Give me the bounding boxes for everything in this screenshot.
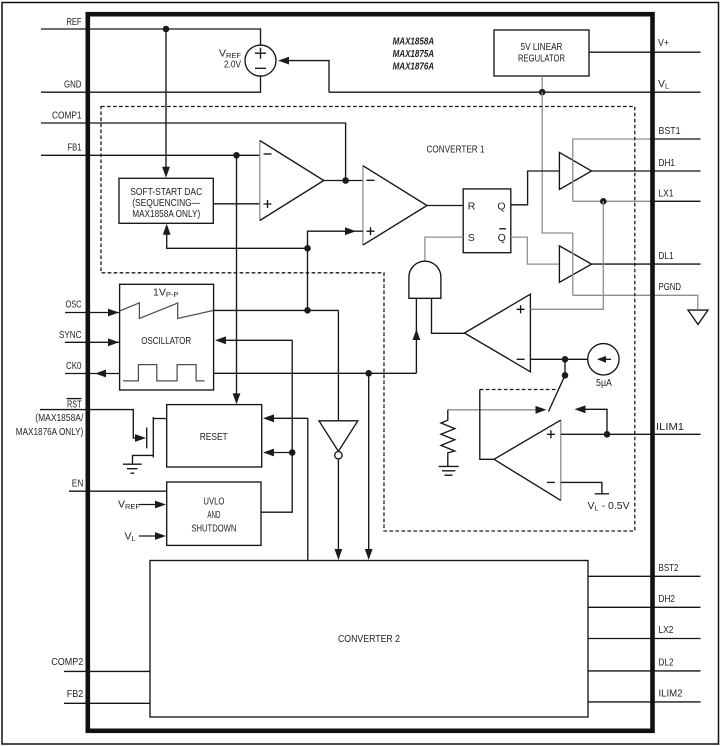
svg-text:CONVERTER 2: CONVERTER 2: [338, 633, 400, 645]
wire soft-start DAC output to error amp noninverting input: [213, 203, 259, 205]
svg-text:REGULATOR: REGULATOR: [518, 53, 565, 65]
svg-text:Q: Q: [497, 201, 505, 213]
op-amp U-CS current-sense comparator: [464, 294, 530, 372]
wire VL into UVLO: [139, 535, 158, 537]
wire oscillator ramp output: [214, 309, 339, 311]
wire EN pin line: [69, 490, 167, 492]
ground resistor ground symbol: [439, 466, 459, 475]
wire REF to soft-start DAC: [165, 29, 167, 169]
svg-text:PGND: PGND: [659, 281, 682, 293]
current source I1 5uA: [588, 344, 619, 375]
wire DL1 driver supply rail to PGND: [572, 233, 574, 295]
wire clock into AND gate left input: [415, 298, 417, 373]
svg-text:2.0V: 2.0V: [224, 58, 241, 70]
node LX1 junction: [600, 198, 607, 205]
svg-text:AND: AND: [207, 509, 220, 521]
flip-flop U-FF SR latch: [463, 189, 511, 253]
svg-text:5V LINEAR: 5V LINEAR: [521, 41, 563, 53]
node clock junction: [365, 370, 372, 377]
svg-text:SYNC: SYNC: [59, 329, 82, 341]
svg-text:CK0: CK0: [66, 360, 82, 372]
oscillator U-OSC box: [120, 284, 214, 390]
svg-text:MAX1875A: MAX1875A: [393, 48, 435, 60]
wire REF pin line with junction to VREF source: [41, 29, 261, 45]
wire Q-bar output to low-side driver: [511, 237, 560, 264]
wire DH1 pin line from driver output: [592, 170, 701, 172]
svg-text:5µA: 5µA: [596, 377, 612, 389]
wire Q output to high-side driver: [511, 171, 560, 205]
svg-text:S: S: [468, 232, 475, 244]
wire BST2 pin line: [588, 575, 701, 577]
wire inverter output to converter 2: [337, 459, 339, 551]
node REF junction: [163, 26, 170, 33]
wire AND gate output to flip-flop S input: [425, 237, 463, 261]
wire shutdown signal into oscillator: [226, 339, 292, 341]
waveform clock square wave: [123, 365, 205, 381]
buffer U-DL low-side driver DL1: [559, 246, 591, 282]
wire current-sense inverting input to 5uA source: [530, 358, 587, 360]
ground PGND symbol: [688, 310, 708, 324]
wire LX2 pin line: [588, 638, 701, 640]
wire LX1 pin line: [573, 200, 701, 202]
svg-text:OSC: OSC: [66, 299, 82, 311]
wire LX1 to current-sense comparator noninverting input: [530, 201, 603, 309]
svg-text:LX1: LX1: [659, 188, 674, 200]
svg-text:COMP1: COMP1: [52, 110, 82, 122]
wire current-limit comparator to AND gate right input: [432, 298, 465, 333]
wire PGND pin line to ground: [573, 295, 698, 309]
wire FB2 pin line: [64, 702, 150, 704]
svg-text:OSCILLATOR: OSCILLATOR: [141, 335, 191, 347]
wire oscillator clock output: [214, 372, 417, 374]
node switch node: [562, 372, 569, 379]
block U-RST RESET box: [167, 405, 262, 467]
wire ILIM1 to switch right contact: [585, 409, 607, 434]
inverter U-INV ramp inverter: [319, 421, 358, 452]
wire GND pin to VREF source negative terminal: [41, 76, 261, 92]
node ramp junction on sawtooth line: [304, 307, 311, 314]
boundary CONVERTER 1 dashed outline: [101, 107, 635, 532]
wire VREF into UVLO: [139, 504, 158, 506]
wire CK0 pin line: [65, 373, 120, 375]
wire BST1 pin line: [650, 138, 701, 140]
switch S1 blade: [549, 375, 566, 411]
transistor Q1 RST open-drain MOSFET: [146, 428, 148, 449]
svg-text:VL - 0.5V: VL - 0.5V: [588, 500, 630, 513]
wire clock to converter 2: [368, 373, 370, 551]
svg-text:MAX1876A ONLY): MAX1876A ONLY): [16, 426, 84, 438]
wire DL2 pin line: [588, 670, 701, 672]
op-amp U-PWM PWM comparator: [362, 166, 364, 245]
wire VREF source input from VL: [286, 61, 329, 93]
svg-text:(MAX1858A/: (MAX1858A/: [35, 412, 83, 424]
svg-text:GND: GND: [64, 79, 82, 91]
block U-UVLO UVLO AND SHUTDOWN box: [167, 482, 261, 545]
wire limit comparator inverting input to VL-0.5V: [561, 482, 602, 493]
dac U-SS SOFT-START DAC box: [119, 178, 213, 223]
block U-C2 CONVERTER 2 box: [150, 561, 588, 718]
waveform sawtooth: [120, 303, 214, 319]
wire error amp output to PWM comparator: [324, 180, 363, 182]
svg-text:SHUTDOWN: SHUTDOWN: [191, 523, 236, 535]
wire FB1 to reset block: [236, 155, 238, 396]
node uvlo-reset junction: [289, 449, 296, 456]
wire converter 2 feedback to reset input: [272, 418, 308, 560]
svg-text:R: R: [468, 201, 476, 213]
wire SYNC pin line: [65, 341, 120, 343]
wire uvlo to reset input: [272, 452, 292, 454]
wire COMP1 pin to error amp output: [41, 123, 346, 181]
svg-text:DL1: DL1: [659, 250, 674, 262]
wire drain to reset block: [153, 418, 166, 420]
wire OSC pin line: [65, 312, 120, 314]
svg-text:CONVERTER 1: CONVERTER 1: [427, 144, 485, 156]
node sense junction: [562, 356, 569, 363]
and-gate U-AND pulse gate: [409, 261, 441, 298]
wire PWM comparator output to flip-flop R input: [427, 205, 463, 207]
svg-text:MAX1858A: MAX1858A: [393, 36, 435, 48]
wire regulator output to VL rail: [541, 76, 543, 92]
svg-text:MAX1858A ONLY): MAX1858A ONLY): [132, 208, 200, 220]
wire switch feed: [564, 359, 566, 375]
wire oscillator ramp to PWM comparator noninverting input: [308, 231, 363, 310]
svg-text:DH1: DH1: [659, 157, 676, 169]
buffer U-DH high-side driver DH1: [559, 152, 591, 189]
node ILIM1 junction: [604, 431, 611, 438]
svg-text:BST1: BST1: [659, 125, 681, 137]
wire ILIM2 pin line: [588, 701, 701, 703]
chip IC boundary thick border: [88, 14, 653, 731]
voltage source VREF 2.0V: [245, 45, 276, 76]
svg-text:MAX1876A: MAX1876A: [393, 60, 435, 72]
wire ramp into inverter: [337, 310, 339, 420]
svg-text:Q: Q: [498, 232, 506, 244]
resistor R1 current-limit setting: [441, 410, 455, 467]
wire ramp feed into soft-start DAC: [167, 232, 308, 248]
wire resistor to switch left contact: [448, 409, 536, 411]
wire DH2 pin line: [588, 606, 701, 608]
wire RST pin to gate: [40, 410, 135, 438]
svg-text:DH2: DH2: [659, 593, 676, 605]
svg-text:ILIM1: ILIM1: [656, 421, 684, 433]
svg-text:DL2: DL2: [659, 657, 674, 669]
wire COMP2 pin line: [64, 670, 150, 672]
wire FB1 pin to error amp inverting input: [41, 154, 260, 156]
svg-text:FB1: FB1: [68, 141, 82, 153]
node ramp junction upper: [304, 245, 311, 252]
op-amp U-IL current-limit comparator: [560, 420, 562, 500]
wire limit comparator output to switch control: [480, 390, 494, 460]
wire DL1 pin line from driver output: [592, 263, 701, 265]
wire source to ground: [133, 455, 154, 464]
svg-text:RESET: RESET: [200, 431, 228, 443]
op-amp U-EA error amplifier: [259, 141, 261, 221]
svg-text:RST: RST: [67, 398, 82, 410]
wire Q-bar overline: [499, 228, 506, 230]
wire VL rail down to low-side driver supply: [542, 92, 573, 233]
wire UVLO output rail: [261, 340, 292, 512]
svg-text:COMP2: COMP2: [51, 656, 83, 668]
wire VL pin line: [329, 91, 701, 93]
node COMP1 junction on error amp output: [342, 177, 349, 184]
regulator U-5V 5V LINEAR REGULATOR box: [494, 30, 589, 76]
svg-text:ILIM2: ILIM2: [659, 688, 683, 700]
node FB1 junction: [233, 152, 240, 159]
ground MOSFET ground symbol: [123, 464, 142, 473]
svg-text:FB2: FB2: [67, 688, 84, 700]
wire switch control from limit comparator (dashed): [480, 389, 557, 391]
wire BST1 supply rail through driver: [573, 139, 650, 201]
svg-text:LX2: LX2: [659, 624, 674, 636]
svg-text:UVLO: UVLO: [203, 496, 224, 508]
wire V+ pin to regulator: [589, 51, 701, 53]
svg-text:BST2: BST2: [659, 562, 679, 574]
svg-text:REF: REF: [67, 16, 82, 28]
svg-text:EN: EN: [72, 477, 84, 489]
supply terminal VL - 0.5V: [595, 493, 609, 495]
node VL junction: [539, 89, 546, 96]
wire ILIM1 pin line: [561, 433, 701, 435]
svg-text:V+: V+: [658, 37, 669, 49]
